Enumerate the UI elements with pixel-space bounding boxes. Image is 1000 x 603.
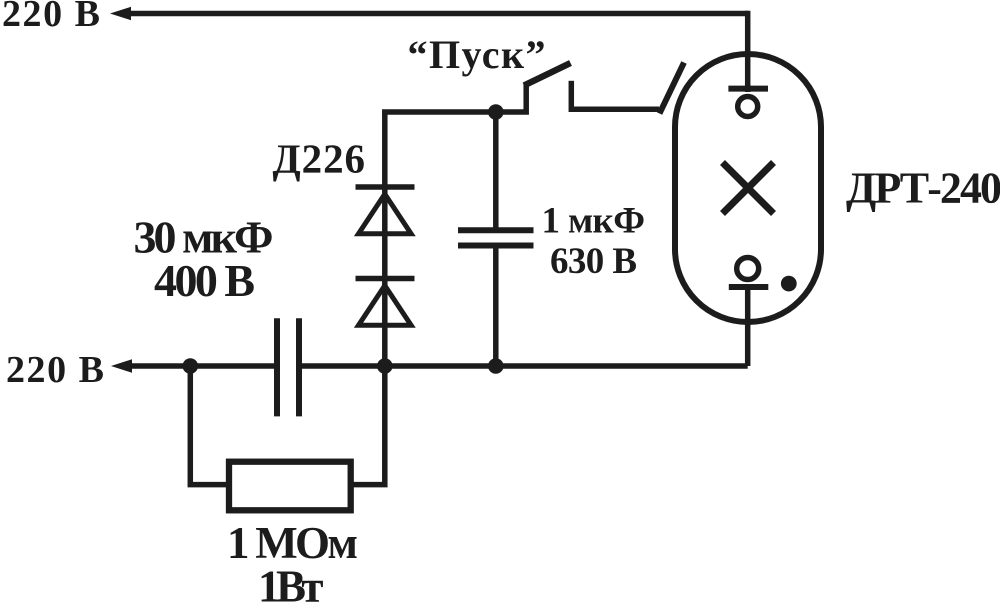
svg-text:1Вт: 1Вт <box>258 561 324 603</box>
junction node bottom left <box>183 358 199 374</box>
lamp bottom electrode circle <box>737 258 759 280</box>
diode VD1 triangle <box>359 194 412 234</box>
wire 1uF bottom vertical <box>493 246 499 367</box>
svg-text:220 В: 220 В <box>6 349 104 391</box>
lamp auxiliary electrode dot <box>781 276 797 292</box>
wire bottom rail left segment to 30uF cap <box>129 363 274 369</box>
diode VD2 triangle <box>359 286 412 326</box>
svg-text:1 мкФ: 1 мкФ <box>542 201 646 242</box>
capacitor C2 1uF top plate <box>458 227 534 233</box>
lamp burner cross <box>723 163 774 214</box>
capacitor C2 1uF bottom plate <box>458 243 534 249</box>
switch SA1 right contact <box>569 81 575 112</box>
arrow head top 220V line <box>110 7 131 20</box>
switch SA1 blade <box>524 63 571 86</box>
svg-text:“Пуск”: “Пуск” <box>408 32 546 77</box>
capacitor C1 30uF left plate <box>274 318 280 416</box>
svg-text:220 В: 220 В <box>2 0 100 35</box>
arrow head bottom 220V line <box>111 359 132 373</box>
diode VD1 cathode bar <box>356 184 415 190</box>
lamp bottom electrode bar <box>729 284 769 290</box>
wire top rail from arrow to lamp top lead <box>128 11 748 17</box>
wire diode branch vertical <box>382 112 388 366</box>
svg-text:ДРТ-240: ДРТ-240 <box>846 164 1000 213</box>
resistor R1 body <box>229 462 351 511</box>
wire switch right contact to ignition lead <box>571 107 659 113</box>
lamp VL1 envelope <box>675 54 821 322</box>
wire lamp bottom lead vertical <box>745 287 751 366</box>
svg-text:400 В: 400 В <box>154 255 255 306</box>
svg-text:630 В: 630 В <box>550 241 637 282</box>
junction node 1uF bottom <box>488 358 504 374</box>
lamp top electrode bar <box>728 86 768 92</box>
junction node diode branch bottom <box>377 358 393 374</box>
wire resistor left vertical <box>190 366 229 485</box>
junction node at switch / 1uF top <box>488 104 504 120</box>
wire top horizontal from diode branch to switch <box>385 83 526 112</box>
svg-text:Д226: Д226 <box>273 136 366 182</box>
wire 1uF top vertical <box>493 112 499 230</box>
ignition electrode diagonal lead at lamp <box>660 63 685 114</box>
wire lamp top lead vertical <box>745 11 751 92</box>
lamp top electrode circle <box>738 97 758 117</box>
wire resistor right vertical <box>351 366 385 485</box>
wire bottom rail right segment to lamp <box>302 363 748 369</box>
capacitor C1 30uF right plate <box>296 318 302 416</box>
diode VD2 cathode bar <box>356 276 415 282</box>
